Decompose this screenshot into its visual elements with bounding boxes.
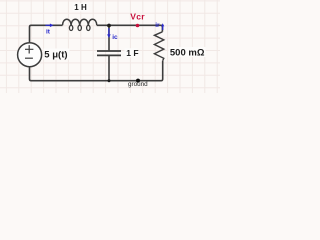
capacitor C1 top stem	[108, 25, 110, 50]
capacitor C1 plates	[97, 51, 121, 55]
inductor L1 coil	[63, 19, 97, 25]
svg-text:1 H: 1 H	[74, 3, 87, 12]
voltage source V1 circle	[18, 43, 42, 67]
svg-text:1 F: 1 F	[126, 48, 138, 58]
wire top-left: source top to coil start	[30, 25, 63, 42]
label bg 5 u(t)	[44, 49, 70, 60]
label bg 1 H	[73, 3, 89, 12]
junction node dot at coil/cap	[107, 24, 111, 28]
current arrow ir	[162, 26, 164, 30]
node Vcr red dot	[136, 24, 140, 28]
junction dot cap bottom	[108, 79, 111, 82]
resistor R1 zigzag	[154, 32, 163, 61]
svg-text:ic: ic	[112, 34, 118, 41]
wire top-right: coil end to resistor top	[97, 25, 163, 32]
current arrow it	[46, 24, 51, 26]
label bg 500 mOhm	[169, 47, 206, 57]
svg-text:5 μ(t): 5 μ(t)	[44, 49, 67, 60]
svg-text:Vcr: Vcr	[130, 12, 145, 22]
plus sign	[25, 45, 33, 53]
minus sign	[25, 57, 33, 59]
inductor loop-back 1	[69, 25, 72, 30]
svg-text:ground: ground	[128, 81, 148, 88]
current arrow ic	[108, 28, 110, 35]
capacitor C1 bottom stem	[108, 55, 110, 80]
inductor loop-back 2	[78, 25, 81, 30]
inductor loop-back 3	[87, 25, 90, 30]
svg-text:500 mΩ: 500 mΩ	[170, 48, 205, 59]
ground node dot	[136, 79, 140, 83]
background canvas	[0, 0, 220, 93]
svg-text:ir: ir	[155, 22, 160, 29]
label bg 1 F	[125, 48, 138, 57]
wire bottom: source bottom to resistor bottom	[30, 61, 163, 81]
